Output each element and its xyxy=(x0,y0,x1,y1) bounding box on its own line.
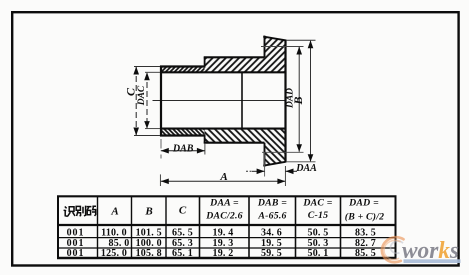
svg-text:85. 5: 85. 5 xyxy=(355,248,376,259)
table column line DAC|DAD xyxy=(340,196,342,258)
table border left xyxy=(57,196,59,258)
svg-text:C-15: C-15 xyxy=(308,210,328,221)
hatch: tube top wall xyxy=(161,67,205,73)
bore step line xyxy=(241,72,243,128)
dimension DAA: arrow pointing left xyxy=(286,169,294,175)
outline: block bottom xyxy=(204,142,265,144)
svg-text:DAD =: DAD = xyxy=(348,198,379,209)
outline: bore top xyxy=(161,71,286,73)
dimension DAB: extension line left (upper) xyxy=(160,139,162,149)
outline: block top xyxy=(204,56,265,58)
svg-text:001: 001 xyxy=(67,248,85,259)
outline: bore bottom xyxy=(161,128,286,130)
码 xyxy=(87,206,97,216)
svg-text:50. 1: 50. 1 xyxy=(308,248,329,259)
svg-text:65. 5: 65. 5 xyxy=(172,227,193,238)
dimension A: dimension line xyxy=(161,180,286,182)
dimension DAA: arrow pointing right xyxy=(257,169,265,175)
data rows xyxy=(67,227,376,259)
dimension DAC: dimension line xyxy=(146,73,148,128)
table row line 1 xyxy=(58,237,396,239)
centerline xyxy=(153,100,287,102)
dimension DAD: extension line top xyxy=(261,46,304,48)
outline: flange face xyxy=(284,40,286,163)
svg-text:34. 6: 34. 6 xyxy=(261,227,282,238)
header: 识别码 drawn as strokes xyxy=(64,206,97,217)
table column line DAA|DAB xyxy=(248,196,250,258)
svg-text:65. 1: 65. 1 xyxy=(172,248,193,259)
dimension B: extension line top xyxy=(286,39,316,41)
svg-text:A: A xyxy=(219,171,227,183)
dimension DAA: right leader xyxy=(286,170,298,172)
dimension DAD: extension line bottom xyxy=(262,151,304,153)
table column line A|B xyxy=(131,196,133,258)
svg-text:59. 5: 59. 5 xyxy=(261,248,282,259)
table border right xyxy=(395,196,397,258)
dimension DAB: extension line left (lower dash) xyxy=(160,155,162,159)
grey inner swirl xyxy=(390,241,403,253)
table column line C|DAA xyxy=(199,196,201,258)
dimension DAB: arrow left xyxy=(161,148,169,154)
dimension A: arrow right xyxy=(277,179,285,185)
dimension DAD: arrow up xyxy=(296,47,302,55)
dimension DAA: extension line left xyxy=(264,153,266,177)
table border top xyxy=(57,195,397,197)
dimension DAB: dimension line xyxy=(161,150,205,152)
table header formulas DAA DAB DAC DAD xyxy=(205,198,384,223)
dimension DAA: dash-dot tail xyxy=(246,170,252,172)
svg-text:19. 4: 19. 4 xyxy=(213,227,234,238)
dimension A: extension line right xyxy=(284,166,286,186)
svg-text:(B + C)/2: (B + C)/2 xyxy=(345,211,385,222)
table header bottom rule xyxy=(57,224,397,226)
dimension DAC: extension line top xyxy=(145,71,160,73)
svg-text:19. 2: 19. 2 xyxy=(213,248,234,259)
dimension C: arrow up xyxy=(133,67,139,75)
dimension A: arrow left xyxy=(161,179,169,185)
hatch: block top wall xyxy=(205,57,265,72)
table column line B|C xyxy=(165,196,167,258)
dimension DAD: dimension line xyxy=(298,47,300,152)
svg-text:83. 5: 83. 5 xyxy=(355,227,376,238)
outline: tube OD top xyxy=(160,65,206,67)
table column line DAB|DAC xyxy=(295,196,297,258)
dimension DAA: left leader xyxy=(252,170,265,172)
svg-text:B: B xyxy=(144,206,152,218)
dimension DAD: arrow down xyxy=(296,144,302,152)
svg-text:B: B xyxy=(291,96,305,105)
outline: step vertical top xyxy=(204,57,206,66)
svg-text:101. 5: 101. 5 xyxy=(136,227,162,238)
outline: flange root vertical top xyxy=(264,36,266,58)
dimension B: extension line bottom xyxy=(286,161,316,163)
dimension B: arrow up xyxy=(308,40,314,48)
svg-text:105. 8: 105. 8 xyxy=(136,248,162,259)
svg-text:A-65.6: A-65.6 xyxy=(257,210,286,221)
dimension DAC: arrow up xyxy=(144,72,150,80)
svg-text:110. 0: 110. 0 xyxy=(101,227,127,238)
hatch: tube bottom wall xyxy=(161,129,205,136)
svg-text:C: C xyxy=(124,87,138,96)
outline: step vertical bottom xyxy=(204,136,206,143)
svg-text:DAA: DAA xyxy=(295,163,317,174)
dimension DAC: extension line bottom xyxy=(145,128,160,130)
svg-text:DAB: DAB xyxy=(172,144,194,155)
dimension C: extension line top xyxy=(134,66,160,68)
watermark blue bar xyxy=(404,259,461,263)
orange e crescent xyxy=(382,237,404,262)
dimension DAB: arrow right xyxy=(197,148,205,154)
dimension DAC: arrow down xyxy=(144,121,150,129)
svg-text:C: C xyxy=(179,205,187,217)
dimension B: dimension line xyxy=(310,41,312,162)
svg-text:DAA =: DAA = xyxy=(209,198,239,209)
hatch: flange bottom xyxy=(265,129,286,166)
outline: flange root vertical bottom xyxy=(264,143,266,167)
outline: flange bottom slope xyxy=(263,162,285,166)
dimension C: extension line bottom xyxy=(134,135,160,137)
hatch: flange top xyxy=(265,37,286,73)
dimension DAB: extension line right xyxy=(204,144,206,155)
table column line 识别码|A xyxy=(97,196,99,258)
hatch: block bottom wall xyxy=(205,129,265,143)
table row line 2 xyxy=(58,247,396,249)
table border bottom xyxy=(57,257,397,260)
svg-text:DAC/2.6: DAC/2.6 xyxy=(205,210,243,221)
dimension B: arrow down xyxy=(308,154,314,162)
outline: flange top slope xyxy=(263,37,285,41)
outline: left face xyxy=(160,66,162,137)
outline: tube OD bottom xyxy=(160,134,206,136)
svg-text:125. 0: 125. 0 xyxy=(101,248,127,259)
svg-text:DAC: DAC xyxy=(137,85,147,106)
svg-text:001: 001 xyxy=(67,227,85,238)
svg-text:DAB =: DAB = xyxy=(257,198,287,209)
别 xyxy=(76,206,85,217)
识 xyxy=(64,207,75,217)
dimension C: dimension line xyxy=(135,67,137,135)
dimension C: arrow down xyxy=(133,128,139,136)
svg-text:50. 5: 50. 5 xyxy=(308,227,329,238)
svg-text:A: A xyxy=(110,206,118,218)
dimension A: extension line left xyxy=(159,174,161,186)
svg-text:DAC =: DAC = xyxy=(302,198,332,209)
